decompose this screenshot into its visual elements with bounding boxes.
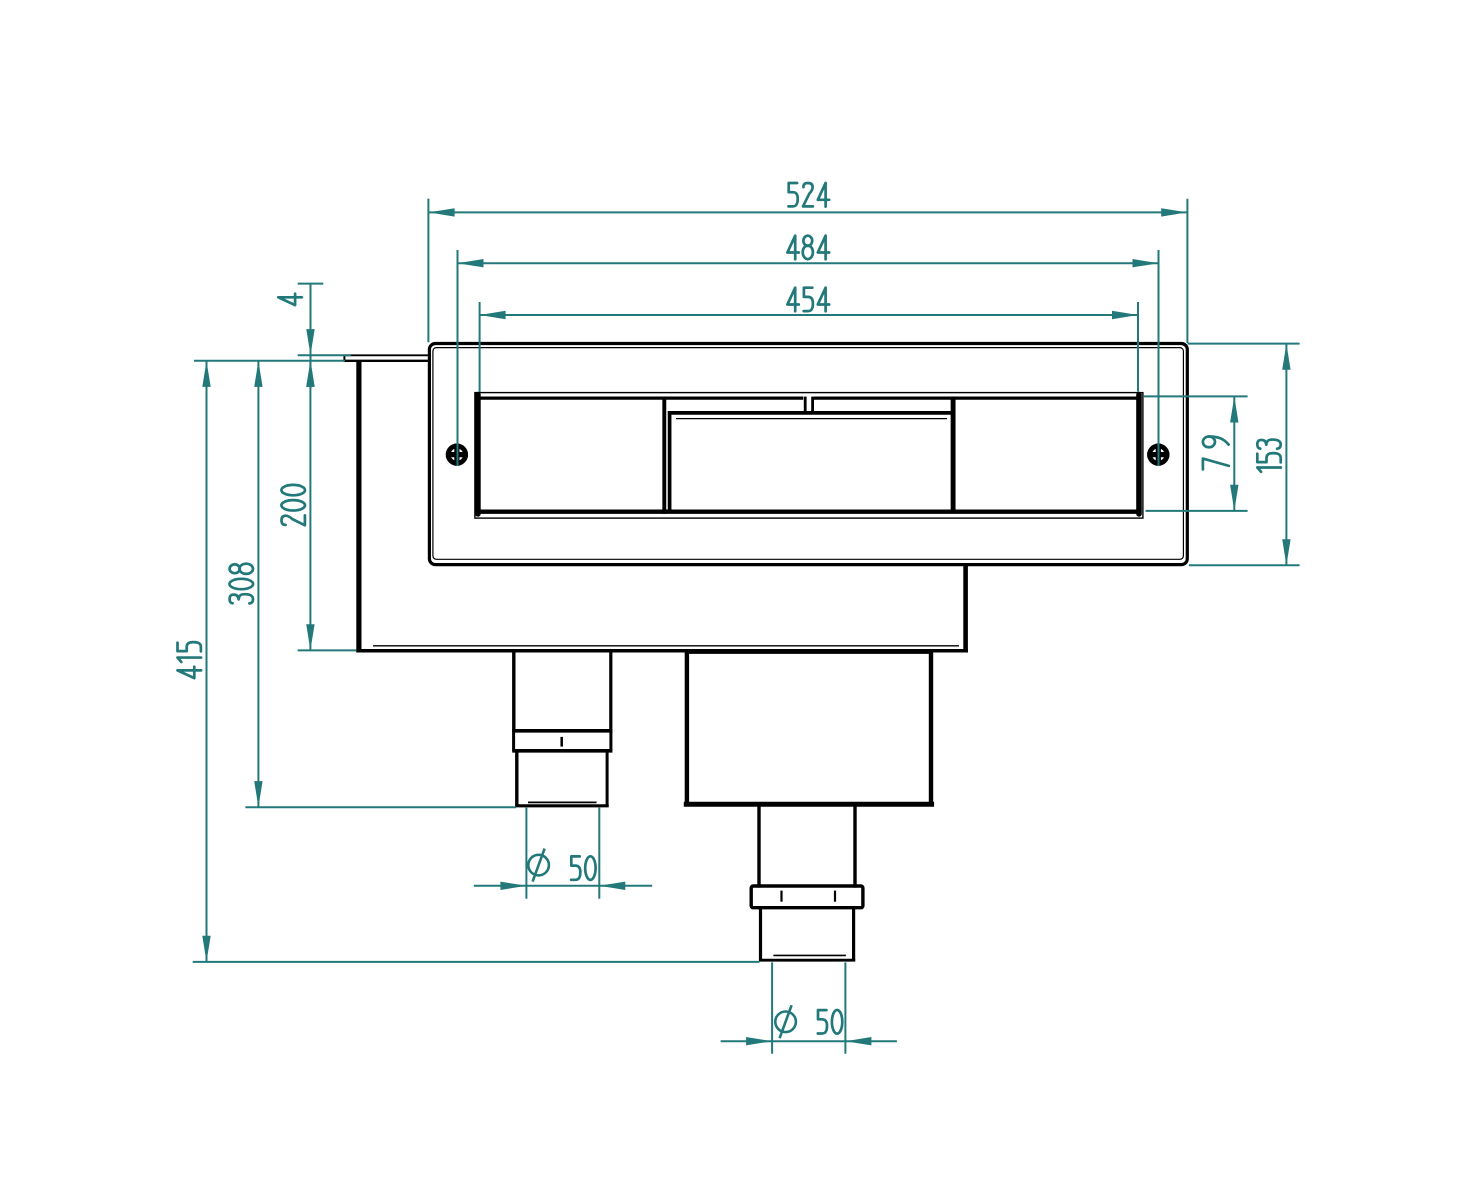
dimension 484 arrows <box>458 259 1159 267</box>
left pipe collar <box>512 731 612 751</box>
screw left <box>446 444 468 466</box>
housing inner bottom thin line <box>373 645 959 647</box>
dimension 200 arrows <box>306 361 314 650</box>
faceplate inner thin outline <box>433 348 1184 560</box>
dimension 79 line <box>1233 396 1235 511</box>
notch verticals <box>805 397 812 414</box>
diameter 50 left line <box>474 885 652 887</box>
right collar ticks <box>782 891 836 902</box>
dimension 200 line <box>298 361 356 651</box>
diameter 50 right line <box>721 1040 897 1042</box>
housing bottom <box>356 649 968 653</box>
left pipe lower section <box>515 751 608 807</box>
left pipe collar tick <box>560 737 563 747</box>
dimension 153 extension lines <box>1188 344 1300 566</box>
housing left wall <box>356 362 361 652</box>
opening top rail with notch gap <box>480 396 1137 399</box>
dimension 484 extension lines <box>458 250 1159 466</box>
left extension line at lip bottom <box>194 360 345 362</box>
dimension 4 text <box>278 294 302 305</box>
dimension 484 line <box>458 262 1159 264</box>
diameter 50 right arrows <box>746 1037 871 1045</box>
diameter 50 left arrows <box>500 882 625 890</box>
diameter 50 right text <box>818 1010 843 1034</box>
dimension 524 text <box>789 183 830 207</box>
diameter 50 left extension lines <box>526 808 599 899</box>
dimension 415 arrows <box>202 361 210 962</box>
dimension 415 line <box>193 361 760 962</box>
left pipe upper section <box>514 652 611 731</box>
flange lip top-left <box>344 355 430 362</box>
big body top darker overlap <box>685 651 932 654</box>
dimension 484 text <box>787 236 829 260</box>
dimension 415 text <box>178 642 202 678</box>
right mid pipe <box>759 806 855 887</box>
right pipe lower section <box>759 908 855 961</box>
weir door middle rectangle <box>668 397 955 514</box>
dimension 524 extension lines <box>428 199 1187 343</box>
dimension 454 line <box>480 314 1138 316</box>
dimension 308 line <box>245 361 516 807</box>
right pipe collar <box>751 886 863 908</box>
screw right <box>1147 444 1169 466</box>
dimension 454 extension lines <box>480 302 1138 392</box>
dimension 79 text <box>1203 437 1229 470</box>
dimension 4 arrows <box>306 329 314 387</box>
dimension 308 arrows <box>254 361 262 807</box>
big body left edge <box>685 651 689 807</box>
diameter 50 right symbol <box>775 1005 796 1038</box>
opening thin outline <box>475 393 1143 518</box>
faceplate outer outline <box>429 344 1187 565</box>
left divider <box>662 397 666 514</box>
opening bottom rail <box>480 510 1137 514</box>
dimension 79 extension lines <box>1144 396 1248 511</box>
dimension 153 text <box>1257 440 1281 472</box>
housing right wall <box>963 565 968 653</box>
opening left thick bar <box>475 395 481 514</box>
big body right edge <box>929 651 933 807</box>
opening right thick bar <box>1136 395 1142 514</box>
diameter 50 left text <box>571 856 596 880</box>
dimension 79 arrows <box>1230 397 1238 511</box>
dimension 4 leader and line <box>298 284 351 389</box>
diameter 50 left symbol <box>528 849 549 882</box>
dimension 524 arrows <box>429 208 1188 216</box>
big body bottom <box>684 802 934 807</box>
dimension 200 text <box>281 485 305 525</box>
dimension 153 arrows <box>1282 344 1290 566</box>
weir thin accent line <box>676 418 947 420</box>
dimension 454 arrows <box>480 311 1138 319</box>
dimension 454 text <box>787 288 829 312</box>
dimension 153 line <box>1285 344 1287 566</box>
dimension 308 text <box>230 564 254 604</box>
right pipe inner bottom thin line <box>773 954 846 956</box>
left pipe inner bottom thin line <box>528 801 597 803</box>
diameter 50 right extension lines <box>772 962 845 1053</box>
dimension 524 line <box>429 211 1188 213</box>
